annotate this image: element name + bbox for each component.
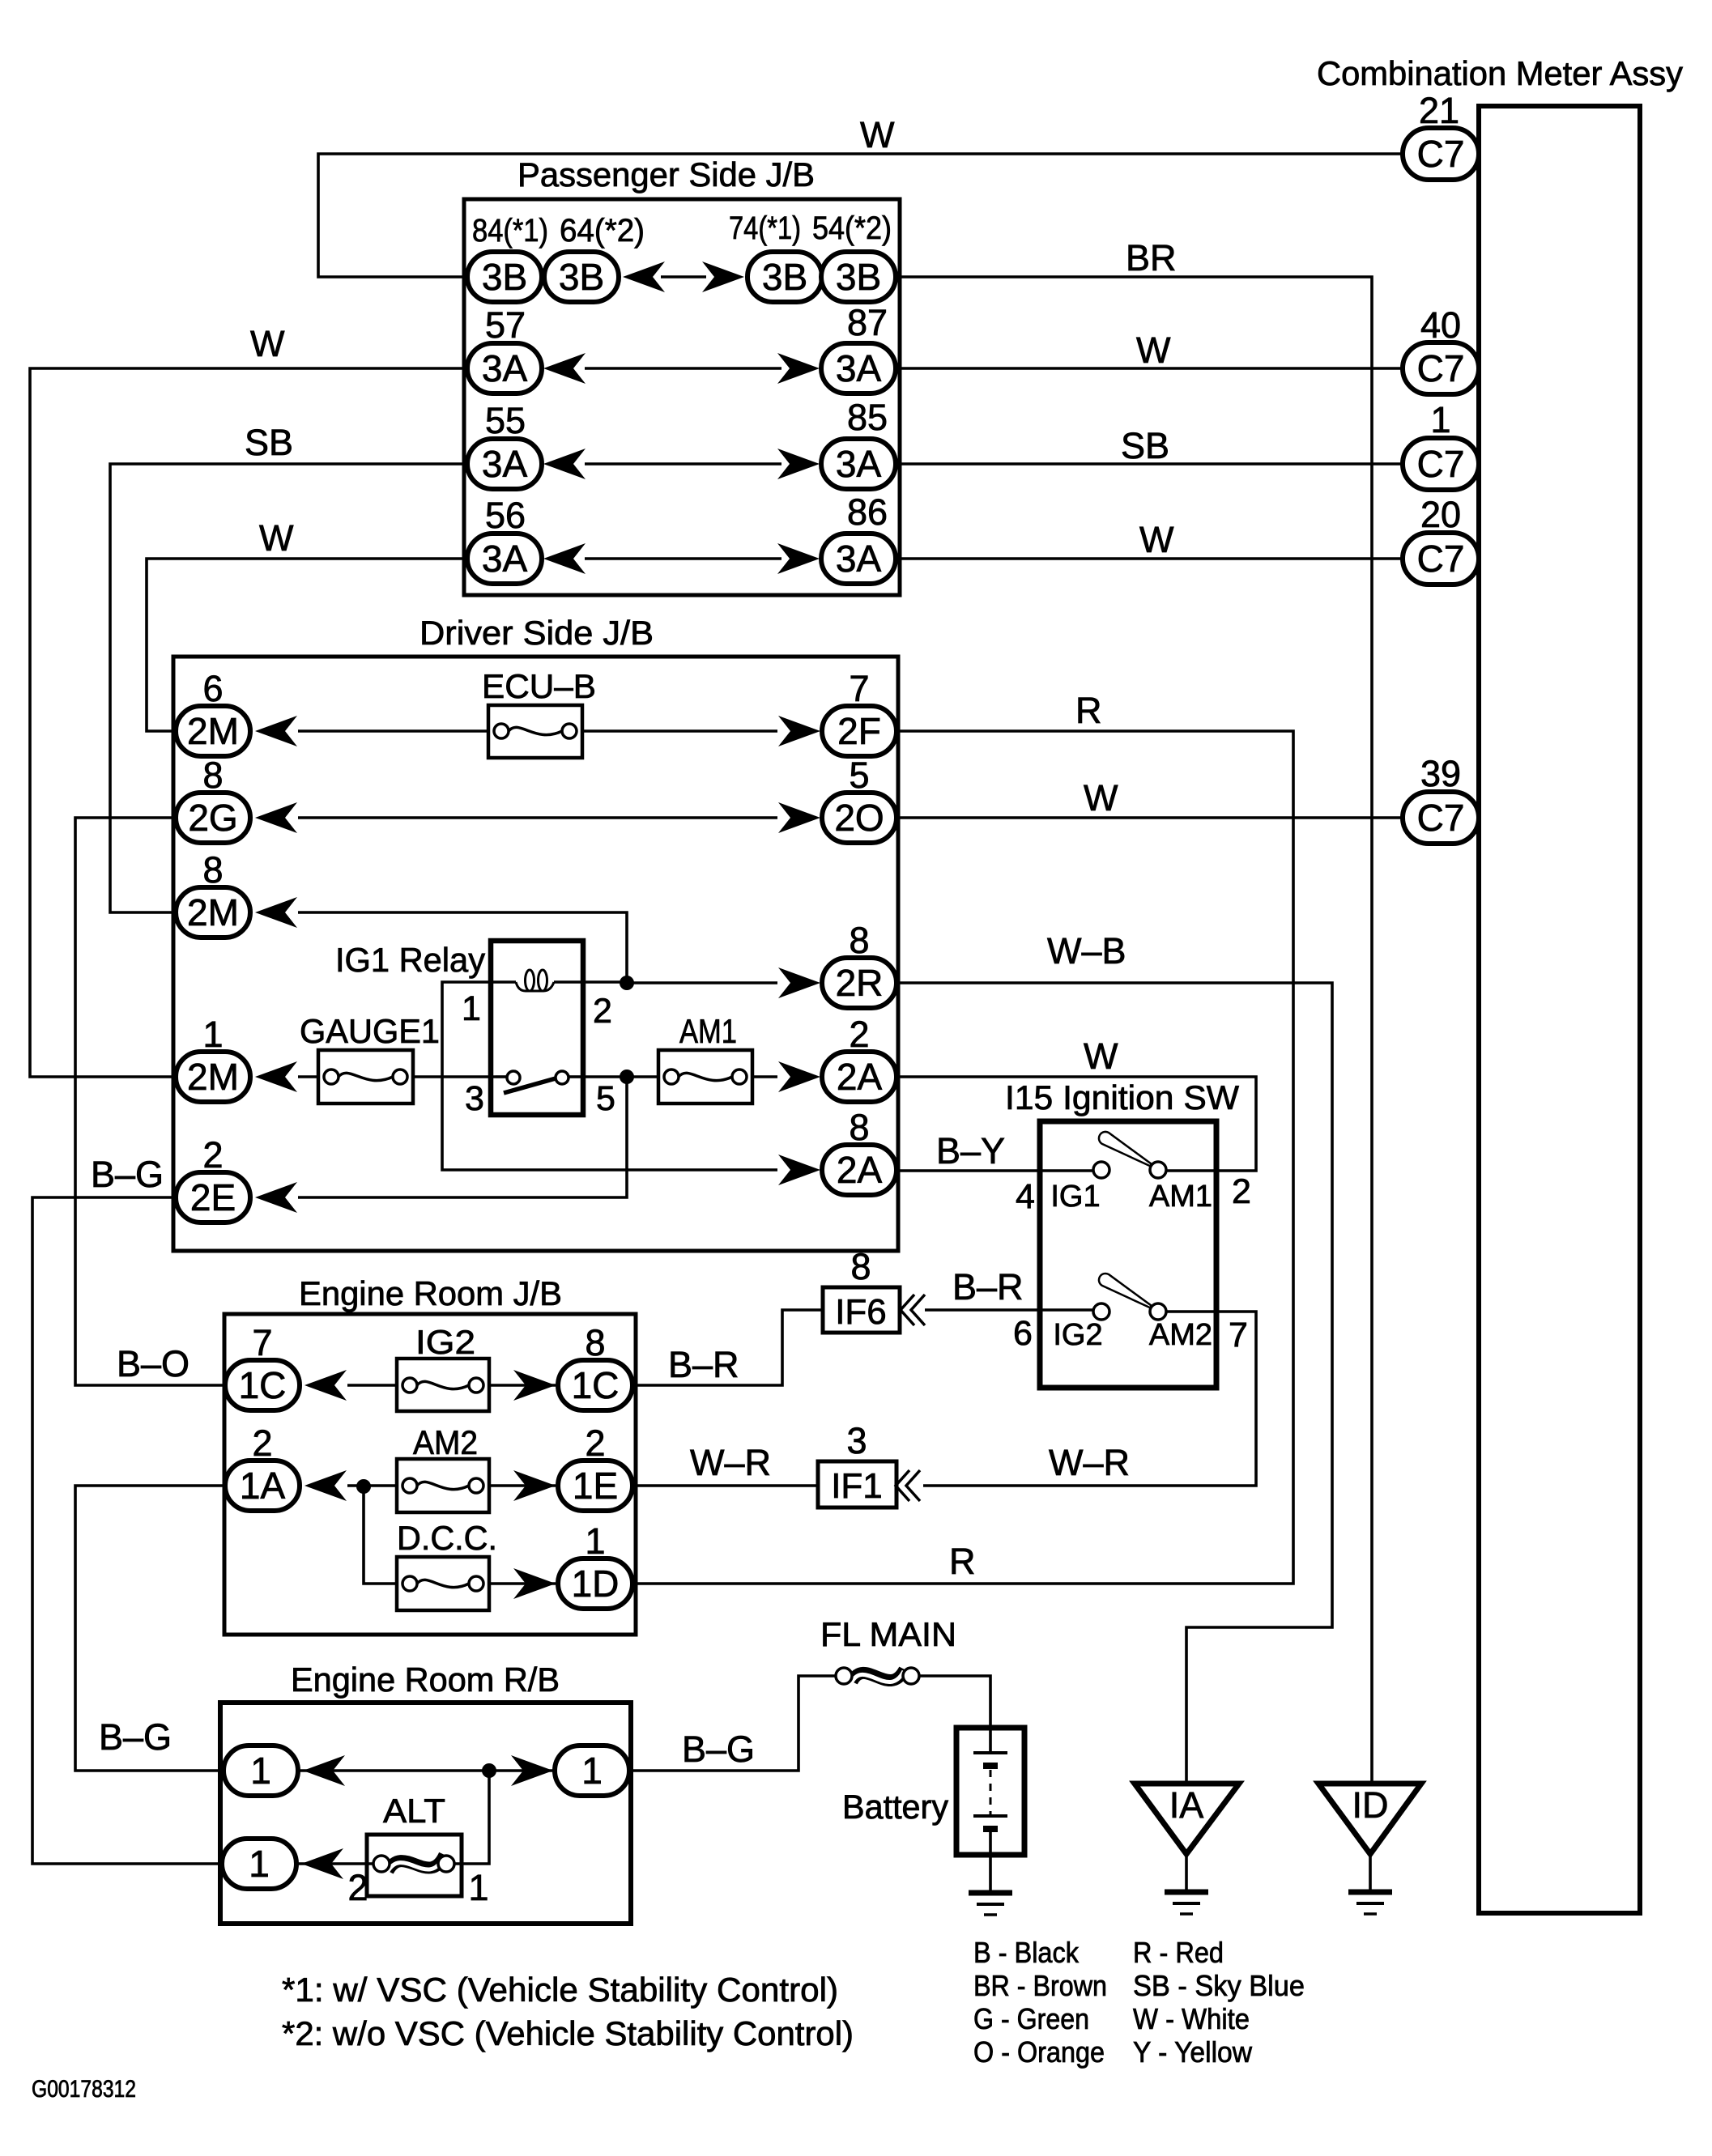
wire W from combination meter C7 pin 21 to Passenger Side J/B 3B — [318, 154, 1403, 277]
svg-text:SB: SB — [245, 422, 293, 463]
label pin 2 1A — [252, 1422, 272, 1464]
svg-text:B–G: B–G — [99, 1716, 172, 1758]
wire relay pin2 to node — [583, 980, 627, 984]
wire W 3A pin 87 to meter C7 pin 40 — [895, 367, 1403, 370]
svg-text:B–R: B–R — [952, 1266, 1024, 1308]
svg-text:W - White: W - White — [1133, 2002, 1250, 2035]
label pin 8 2M — [202, 849, 223, 891]
svg-text:3A: 3A — [836, 538, 882, 580]
connector 2E pin 2 — [176, 1172, 250, 1223]
arrow left 2M8 — [255, 897, 297, 928]
label Passenger Side J/B — [517, 155, 815, 193]
svg-text:2M: 2M — [187, 710, 239, 752]
svg-text:Battery: Battery — [842, 1788, 948, 1826]
svg-text:1E: 1E — [573, 1465, 618, 1507]
svg-text:86: 86 — [847, 491, 888, 533]
label W-R wire right — [1049, 1442, 1130, 1483]
svg-text:55: 55 — [485, 400, 526, 441]
label pin 57 — [485, 304, 526, 346]
legend B Black — [973, 1936, 1080, 1969]
wire inside 3B row — [661, 275, 706, 279]
label pin 4 — [1016, 1177, 1035, 1216]
wire W-R net IF1 to ignition switch AM2 — [923, 1312, 1256, 1486]
wire W net 2O pin 5 to meter C7 pin 39 — [896, 816, 1403, 819]
wire B-R net 1C pin 8 to connector IF6 — [631, 1310, 823, 1385]
wire W net 3A pin 57 to Driver Side J/B 2M pin 1 — [30, 368, 466, 1077]
svg-text:1: 1 — [249, 1843, 270, 1885]
svg-text:B–R: B–R — [668, 1344, 739, 1385]
arrow right 1C — [513, 1370, 556, 1401]
label Engine Room J/B — [299, 1274, 562, 1312]
label pin 6 — [202, 668, 223, 709]
wire pin5 node to 2E row — [298, 1077, 627, 1197]
label W wire left 57 — [250, 323, 285, 364]
fuse DCC — [397, 1557, 489, 1610]
wire inside 3A row 55-85 — [585, 462, 781, 466]
svg-text:54(*2): 54(*2) — [812, 210, 892, 246]
label pin 85 — [847, 397, 888, 438]
label ALT pin 1 — [468, 1867, 488, 1908]
legend W White — [1133, 2002, 1250, 2035]
svg-text:1: 1 — [1430, 399, 1450, 440]
label AM1 switch — [1149, 1180, 1212, 1214]
fuse IG2 — [397, 1359, 489, 1411]
wire 2M1 to GAUGE1 fuse — [298, 1075, 318, 1078]
connector 3B pin 64 — [544, 252, 619, 302]
wire ID triangle to ground — [1369, 1854, 1372, 1892]
svg-text:AM2: AM2 — [1149, 1318, 1212, 1352]
svg-text:1A: 1A — [240, 1465, 286, 1507]
arrow right 1D — [513, 1568, 556, 1599]
svg-text:7: 7 — [1229, 1316, 1248, 1354]
connector 2M pin 6 — [176, 706, 250, 756]
svg-text:56: 56 — [485, 495, 526, 536]
label pin 6 — [1013, 1314, 1033, 1353]
ground ID symbol — [1348, 1892, 1392, 1914]
label pin 7 1C — [252, 1322, 272, 1363]
svg-text:R - Red: R - Red — [1133, 1936, 1224, 1969]
svg-text:Engine Room R/B: Engine Room R/B — [291, 1661, 560, 1699]
connector C7 pin 21 label — [1419, 90, 1459, 131]
label W-R wire left — [690, 1442, 771, 1483]
svg-text:SB - Sky Blue: SB - Sky Blue — [1133, 1969, 1305, 2002]
arrow left R/B 1 — [303, 1755, 345, 1786]
connector 3A pin 87 — [821, 343, 896, 393]
svg-text:Combination Meter Assy: Combination Meter Assy — [1317, 54, 1683, 92]
label B-O wire — [117, 1343, 190, 1384]
svg-text:2: 2 — [347, 1867, 368, 1908]
svg-text:21: 21 — [1419, 90, 1459, 131]
svg-text:C7: C7 — [1417, 443, 1465, 485]
junction block Engine Room R/B box — [220, 1703, 631, 1924]
connector 1 top left — [224, 1746, 298, 1796]
label pin 1 1D — [585, 1520, 605, 1562]
svg-text:O - Orange: O - Orange — [973, 2035, 1105, 2069]
connector 3B pin 84 — [467, 252, 542, 302]
label AM2 switch — [1149, 1318, 1212, 1352]
ignition switch IG1 contact — [1093, 1162, 1109, 1178]
legend SB Sky Blue — [1133, 1969, 1305, 2002]
connector 2M pin 1 — [176, 1052, 250, 1102]
wire relay pin1 to 2A8 row — [442, 982, 777, 1170]
svg-text:B–O: B–O — [117, 1343, 190, 1384]
svg-text:2M: 2M — [187, 1056, 239, 1098]
label pin 54(*2) — [812, 210, 892, 246]
label B-R wire left — [668, 1344, 739, 1385]
wire IA triangle to ground — [1185, 1854, 1188, 1892]
svg-text:2A: 2A — [837, 1056, 883, 1098]
fusible link FL MAIN — [836, 1668, 919, 1684]
wire B-R net IF6 to ignition switch IG2 — [925, 1308, 1093, 1312]
connector IF6 — [823, 1287, 900, 1333]
svg-text:1: 1 — [468, 1867, 488, 1908]
note star2 VSC — [282, 2014, 854, 2052]
connector C7 pin 39 label — [1420, 753, 1461, 794]
svg-text:2: 2 — [585, 1422, 605, 1464]
ignition switch AM1 contact — [1099, 1132, 1166, 1178]
svg-text:7: 7 — [849, 668, 869, 709]
svg-text:2F: 2F — [837, 710, 881, 752]
label pin 8 IF6 — [850, 1246, 871, 1287]
connector joint IF1 chevrons — [896, 1470, 920, 1501]
svg-text:3B: 3B — [482, 256, 527, 298]
wire 2G to 2O — [298, 816, 777, 819]
wire W net 3A pin 56 to Driver Side J/B 2M pin 6 — [147, 559, 466, 731]
wire inside 3A row 56-86 — [585, 557, 781, 560]
svg-text:C7: C7 — [1417, 133, 1465, 175]
svg-text:Y - Yellow: Y - Yellow — [1133, 2035, 1253, 2069]
arrow left 2E — [255, 1182, 297, 1213]
connector 3A pin 57 — [467, 343, 542, 393]
svg-text:3B: 3B — [836, 256, 881, 298]
ignition switch IG2 contact — [1093, 1303, 1109, 1320]
connector IF1 — [818, 1461, 896, 1507]
label AM2 fuse — [413, 1423, 478, 1461]
arrow right 3A row2 — [777, 449, 820, 479]
svg-text:4: 4 — [1016, 1177, 1035, 1216]
label W-B wire — [1047, 930, 1126, 972]
wire BR net 3B pin 54 to ground connector ID — [895, 277, 1372, 1784]
arrow left 1C — [304, 1370, 347, 1401]
label pin 86 — [847, 491, 888, 533]
svg-text:SB: SB — [1121, 425, 1169, 466]
connector 3A pin 55 — [467, 439, 542, 489]
wire GAUGE1 fuse to relay — [413, 1075, 496, 1078]
wire AM2 fuse to 1E — [489, 1484, 556, 1487]
battery cells — [973, 1730, 1007, 1853]
svg-text:8: 8 — [202, 849, 223, 891]
svg-text:40: 40 — [1420, 304, 1461, 346]
wire B-O net 2G pin 8 to Engine Room J/B 1C pin 7 — [75, 818, 227, 1385]
relay switch contact — [496, 1071, 581, 1093]
svg-text:1: 1 — [585, 1520, 605, 1562]
label G00178312 — [32, 2076, 136, 2103]
arrow left 2G — [255, 802, 297, 833]
wire DCC fuse to 1D — [489, 1582, 556, 1585]
label pin 2 AM1 — [1232, 1172, 1251, 1211]
label Driver Side J/B — [419, 614, 654, 652]
svg-text:IG2: IG2 — [1053, 1318, 1102, 1352]
svg-text:*1: w/ VSC (Vehicle Stability: *1: w/ VSC (Vehicle Stability Control) — [282, 1971, 838, 2009]
battery box — [956, 1728, 1024, 1855]
svg-text:R: R — [1075, 690, 1102, 731]
connector C7 pin 40 label — [1420, 304, 1461, 346]
svg-text:2O: 2O — [834, 797, 884, 839]
arrow left 3A row3 — [543, 543, 586, 574]
connector 3B pin 74 — [747, 252, 822, 302]
svg-text:87: 87 — [847, 302, 888, 343]
svg-text:W: W — [250, 323, 285, 364]
svg-text:84(*1): 84(*1) — [472, 213, 548, 249]
connector C7 pin 1 label — [1430, 399, 1450, 440]
connector C7 pin 21 — [1403, 128, 1479, 180]
relay pin 3 label — [465, 1079, 484, 1118]
label W wire 2A — [1084, 1035, 1118, 1077]
svg-text:B - Black: B - Black — [973, 1936, 1080, 1969]
label ALT — [383, 1792, 445, 1830]
wire 1C to IG2 fuse — [347, 1384, 397, 1387]
label AM1 — [679, 1012, 737, 1050]
arrow left 2M6 — [255, 716, 297, 746]
wire 1 to ALT fuse — [296, 1862, 373, 1865]
wire B-G net 1A pin 2 to Engine Room R/B pin 1 — [75, 1486, 227, 1771]
svg-text:GAUGE1: GAUGE1 — [300, 1012, 440, 1050]
svg-text:57: 57 — [485, 304, 526, 346]
svg-text:7: 7 — [252, 1322, 272, 1363]
label pin 2 1E — [585, 1422, 605, 1464]
connector 1D pin 1 — [558, 1559, 632, 1609]
label W top wire — [860, 114, 895, 155]
wire R net 2F pin 7 to 1D pin 1 — [632, 731, 1293, 1584]
wire battery negative to ground — [989, 1855, 992, 1893]
connector 3B pin 54 — [821, 252, 896, 302]
svg-text:2E: 2E — [190, 1176, 236, 1218]
label IG2 — [1053, 1318, 1102, 1352]
svg-text:W: W — [259, 517, 294, 559]
ground below battery — [969, 1893, 1012, 1915]
junction block Passenger Side J/B box — [464, 199, 900, 595]
relay pin 2 label — [593, 992, 612, 1031]
svg-text:I15 Ignition SW: I15 Ignition SW — [1005, 1078, 1239, 1116]
wire 2M8 to relay coil node — [298, 912, 627, 983]
wire B-Y net 2A pin 8 to ignition switch IG1 — [896, 1169, 1093, 1172]
label BR wire — [1126, 237, 1177, 279]
svg-text:BR: BR — [1126, 237, 1177, 279]
wire W 3A pin 86 to meter C7 pin 20 — [895, 557, 1403, 560]
label FL MAIN — [820, 1615, 956, 1653]
label Combination Meter Assy — [1317, 54, 1683, 92]
label W wire pin87 — [1136, 330, 1171, 371]
svg-text:8: 8 — [202, 755, 223, 796]
fuse GAUGE1 — [318, 1050, 413, 1104]
wire relay to AM1 fuse — [581, 1075, 658, 1078]
junction block Engine Room J/B box — [224, 1314, 636, 1635]
label pin 8 1C — [585, 1322, 605, 1363]
svg-text:W: W — [1084, 777, 1118, 819]
label pin 2 2E — [202, 1134, 223, 1176]
label B-G wire right — [682, 1729, 755, 1770]
svg-text:W: W — [860, 114, 895, 155]
connector 1C pin 7 — [225, 1360, 300, 1410]
note star1 VSC — [282, 1971, 838, 2009]
svg-text:W: W — [1136, 330, 1171, 371]
label R wire 2F — [1075, 690, 1102, 731]
svg-text:1C: 1C — [572, 1364, 620, 1406]
label IG1 Relay — [335, 941, 485, 979]
wire W-R net 1E pin 2 to connector IF1 — [631, 1484, 818, 1487]
label IG2 fuse — [415, 1323, 475, 1361]
label I15 Ignition SW — [1005, 1078, 1239, 1116]
svg-text:B–Y: B–Y — [936, 1130, 1005, 1172]
svg-text:*2: w/o VSC (Vehicle Stability: *2: w/o VSC (Vehicle Stability Control) — [282, 2014, 854, 2052]
svg-text:G00178312: G00178312 — [32, 2076, 136, 2103]
label pin 8 2A2 — [849, 1107, 869, 1148]
connector 1C pin 8 — [558, 1360, 632, 1410]
svg-text:B–G: B–G — [682, 1729, 755, 1770]
label pin 7 AM2 — [1229, 1316, 1248, 1354]
legend O Orange — [973, 2035, 1105, 2069]
connector 2M pin 8 — [176, 887, 250, 938]
svg-text:IF1: IF1 — [831, 1466, 883, 1506]
svg-text:2R: 2R — [836, 962, 884, 1004]
label R wire 1D — [949, 1541, 976, 1582]
connector 3A pin 56 — [467, 534, 542, 584]
connector C7 pin 40 — [1403, 342, 1479, 394]
legend Y Yellow — [1133, 2035, 1253, 2069]
wire R/B row1 — [298, 1769, 629, 1772]
arrow right 1E — [513, 1470, 556, 1501]
wire coil node to 2R — [627, 981, 777, 984]
svg-text:20: 20 — [1420, 494, 1461, 535]
wire AM1 fuse to 2A — [752, 1075, 777, 1078]
ignition switch AM2 contact — [1099, 1274, 1166, 1320]
connector C7 pin 20 label — [1420, 494, 1461, 535]
svg-text:2: 2 — [202, 1134, 223, 1176]
label pin 56 — [485, 495, 526, 536]
label B-Y wire — [936, 1130, 1005, 1172]
svg-text:8: 8 — [849, 1107, 869, 1148]
arrow right 3B row — [702, 262, 744, 292]
svg-text:3A: 3A — [482, 347, 528, 389]
label B-R wire right — [952, 1266, 1024, 1308]
connector 2F pin 7 — [822, 706, 896, 756]
arrow right 2R — [778, 967, 820, 998]
svg-text:IG1: IG1 — [1050, 1180, 1100, 1214]
ground IA symbol — [1165, 1892, 1208, 1914]
wire W net 2A pin 2 to ignition switch AM1 — [896, 1077, 1256, 1171]
arrow left R/B ALT — [301, 1848, 343, 1879]
arrow left 3A row2 — [543, 449, 586, 479]
svg-text:Driver Side J/B: Driver Side J/B — [419, 614, 654, 652]
svg-text:1D: 1D — [572, 1563, 620, 1605]
arrow right 3A row1 — [777, 353, 820, 384]
label ALT pin 2 — [347, 1867, 368, 1908]
svg-text:5: 5 — [596, 1079, 615, 1118]
svg-text:AM1: AM1 — [679, 1012, 737, 1050]
node junction ALT — [482, 1763, 496, 1778]
svg-text:FL MAIN: FL MAIN — [820, 1615, 956, 1653]
label pin 2 2A — [849, 1014, 869, 1055]
wire B-G net 2E pin 2 to Engine Room R/B — [32, 1197, 224, 1864]
label pin 8 2R — [849, 920, 869, 961]
label pin 3 IF1 — [846, 1420, 867, 1461]
wire inside 3A row 57-87 — [585, 367, 781, 370]
label GAUGE1 — [300, 1012, 440, 1050]
svg-text:W: W — [1139, 519, 1174, 560]
svg-text:Engine Room J/B: Engine Room J/B — [299, 1274, 562, 1312]
connector 2G pin 8 — [176, 793, 250, 843]
connector 2O pin 5 — [822, 793, 896, 843]
connector C7 pin 20 — [1403, 533, 1479, 585]
label W wire 2O — [1084, 777, 1118, 819]
wire W-B net 2R pin 8 to ground connector IA — [896, 983, 1332, 1784]
svg-text:2: 2 — [1232, 1172, 1251, 1211]
svg-text:IG2: IG2 — [415, 1323, 475, 1361]
svg-text:1C: 1C — [239, 1364, 287, 1406]
arrow right 2A — [778, 1061, 820, 1092]
svg-text:B–G: B–G — [91, 1154, 164, 1195]
label pin 74(*1) — [729, 210, 801, 246]
wire B-G net Engine Room R/B pin 1 to FL MAIN — [629, 1676, 836, 1771]
wire SB 3A pin 85 to meter C7 pin 1 — [895, 462, 1403, 466]
svg-text:5: 5 — [849, 755, 869, 796]
connector 3A pin 86 — [821, 534, 896, 584]
fuse ALT fusible link — [367, 1835, 462, 1896]
label SB wire left 55 — [245, 422, 293, 463]
svg-text:1: 1 — [202, 1014, 223, 1055]
ground connector IA — [1135, 1784, 1239, 1854]
connector joint IF6 chevrons — [901, 1295, 925, 1325]
svg-text:2A: 2A — [837, 1149, 883, 1191]
relay pin 1 label — [462, 989, 481, 1028]
fuse ECU-B — [488, 705, 582, 758]
connector 1E pin 2 — [558, 1461, 632, 1511]
svg-text:1: 1 — [581, 1750, 603, 1792]
label DCC fuse — [397, 1519, 497, 1557]
arrow left 1A — [304, 1470, 347, 1501]
svg-text:3A: 3A — [482, 443, 528, 485]
connector 1 top right — [555, 1746, 629, 1796]
node junction pin5-2E — [620, 1069, 634, 1084]
svg-text:C7: C7 — [1417, 538, 1465, 580]
svg-text:W–R: W–R — [690, 1442, 771, 1483]
ignition switch I15 box — [1040, 1121, 1216, 1388]
ground connector ID — [1318, 1784, 1421, 1854]
label pin 87 — [847, 302, 888, 343]
label B-G wire left — [99, 1716, 172, 1758]
fuse AM1 — [658, 1050, 752, 1104]
svg-text:74(*1): 74(*1) — [729, 210, 801, 246]
svg-text:W–R: W–R — [1049, 1442, 1130, 1483]
label Battery — [842, 1788, 948, 1826]
svg-text:1: 1 — [250, 1750, 271, 1792]
node junction 1A-DCC — [356, 1479, 371, 1494]
svg-text:2: 2 — [252, 1422, 272, 1464]
connector 3A pin 85 — [821, 439, 896, 489]
svg-text:IG1 Relay: IG1 Relay — [335, 941, 485, 979]
label W wire pin86 — [1139, 519, 1174, 560]
arrow right 2O — [778, 802, 820, 833]
svg-text:W–B: W–B — [1047, 930, 1126, 972]
connector 2R pin 8 — [822, 958, 896, 1008]
connector 1A pin 2 — [225, 1461, 300, 1511]
arrow right 2F — [778, 716, 820, 746]
fuse AM2 — [397, 1459, 489, 1512]
label IG1 — [1050, 1180, 1100, 1214]
svg-text:C7: C7 — [1417, 797, 1465, 839]
svg-text:ECU–B: ECU–B — [482, 667, 596, 705]
svg-text:AM1: AM1 — [1149, 1180, 1212, 1214]
